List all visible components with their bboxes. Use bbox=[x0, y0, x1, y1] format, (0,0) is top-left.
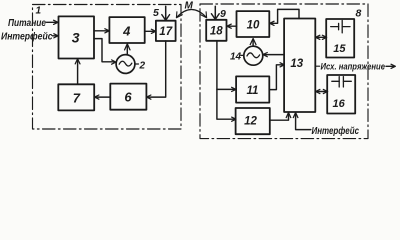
output arrow bbox=[386, 64, 395, 68]
left enclosure box 1 (dash-dot border) bbox=[33, 5, 182, 130]
label 14 bbox=[230, 51, 244, 62]
svg-text:8: 8 bbox=[356, 8, 362, 20]
wire generator 14 to 10 bbox=[250, 39, 256, 47]
svg-text:6: 6 bbox=[124, 89, 132, 104]
wire 3 to generator 2 bbox=[94, 39, 116, 65]
svg-text:Интерфейс: Интерфейс bbox=[1, 31, 53, 43]
wire: Интерфейс input arrow bbox=[53, 34, 59, 38]
wire 13 to output label bbox=[316, 65, 320, 67]
wire 12 to 13 bbox=[270, 113, 291, 121]
wire 13 to 10 bbox=[270, 9, 299, 25]
label 2 bbox=[135, 60, 145, 71]
svg-text:Интерфейс: Интерфейс bbox=[312, 125, 360, 137]
block 10 bbox=[237, 11, 270, 37]
svg-text:17: 17 bbox=[159, 26, 172, 38]
generator circle 2 bbox=[116, 55, 135, 74]
capacitor symbol in 16 bbox=[332, 77, 352, 87]
block 11 bbox=[236, 76, 269, 102]
wire 18 to 11 and 12 bbox=[217, 41, 236, 122]
block 17 bbox=[156, 21, 176, 41]
right enclosure box 8 (dash-dot border) bbox=[200, 4, 368, 139]
svg-text:10: 10 bbox=[247, 19, 260, 31]
svg-text:5: 5 bbox=[153, 7, 159, 19]
wire 3 to 4 bbox=[94, 29, 109, 33]
svg-text:15: 15 bbox=[333, 43, 346, 55]
wire 6 to 7 bbox=[95, 95, 111, 99]
svg-text:2: 2 bbox=[139, 60, 146, 71]
block 7 bbox=[58, 84, 94, 110]
block 4 bbox=[109, 17, 144, 43]
block 15 bbox=[326, 19, 354, 58]
antenna input 9 arrow bbox=[211, 6, 219, 19]
generator circle 14 bbox=[244, 46, 263, 65]
wire 7 to 3 bbox=[75, 59, 80, 84]
block 18 bbox=[206, 20, 226, 41]
wire 4 to 17 bbox=[145, 29, 156, 33]
svg-text:16: 16 bbox=[332, 98, 345, 110]
block 13 bbox=[284, 19, 315, 113]
svg-text:13: 13 bbox=[290, 58, 303, 70]
svg-text:3: 3 bbox=[72, 29, 80, 45]
wire 10 to 18 bbox=[227, 24, 237, 28]
svg-text:Исх. напряжение: Исх. напряжение bbox=[321, 62, 386, 73]
svg-text:9: 9 bbox=[220, 8, 226, 20]
wire 17 to 6 bbox=[147, 41, 166, 99]
svg-text:4: 4 bbox=[122, 24, 131, 39]
battery symbol in 15 bbox=[331, 20, 350, 33]
block 16 bbox=[327, 75, 355, 114]
wire 13 to 15 double arrow bbox=[316, 35, 327, 39]
svg-text:1: 1 bbox=[36, 6, 42, 17]
wire 13 to generator 14 bbox=[263, 53, 284, 57]
wire generator 2 to 4 bbox=[125, 44, 130, 55]
block 6 bbox=[110, 84, 146, 110]
wire 11 to 13 bbox=[269, 63, 284, 90]
svg-text:7: 7 bbox=[73, 91, 81, 106]
wire: Питание input arrow bbox=[47, 20, 59, 24]
svg-text:14: 14 bbox=[230, 51, 242, 62]
svg-text:Питание: Питание bbox=[8, 18, 46, 29]
wire 13 to 16 double arrow bbox=[316, 89, 328, 93]
svg-text:18: 18 bbox=[210, 26, 223, 38]
antenna input 5 arrow bbox=[162, 6, 170, 20]
coupling arc M between antennas bbox=[176, 10, 206, 18]
wire Интерфейс to 13 bbox=[293, 113, 311, 130]
svg-text:12: 12 bbox=[244, 116, 257, 128]
block 3 bbox=[59, 16, 95, 58]
svg-text:11: 11 bbox=[247, 85, 259, 97]
block 12 bbox=[236, 108, 270, 134]
